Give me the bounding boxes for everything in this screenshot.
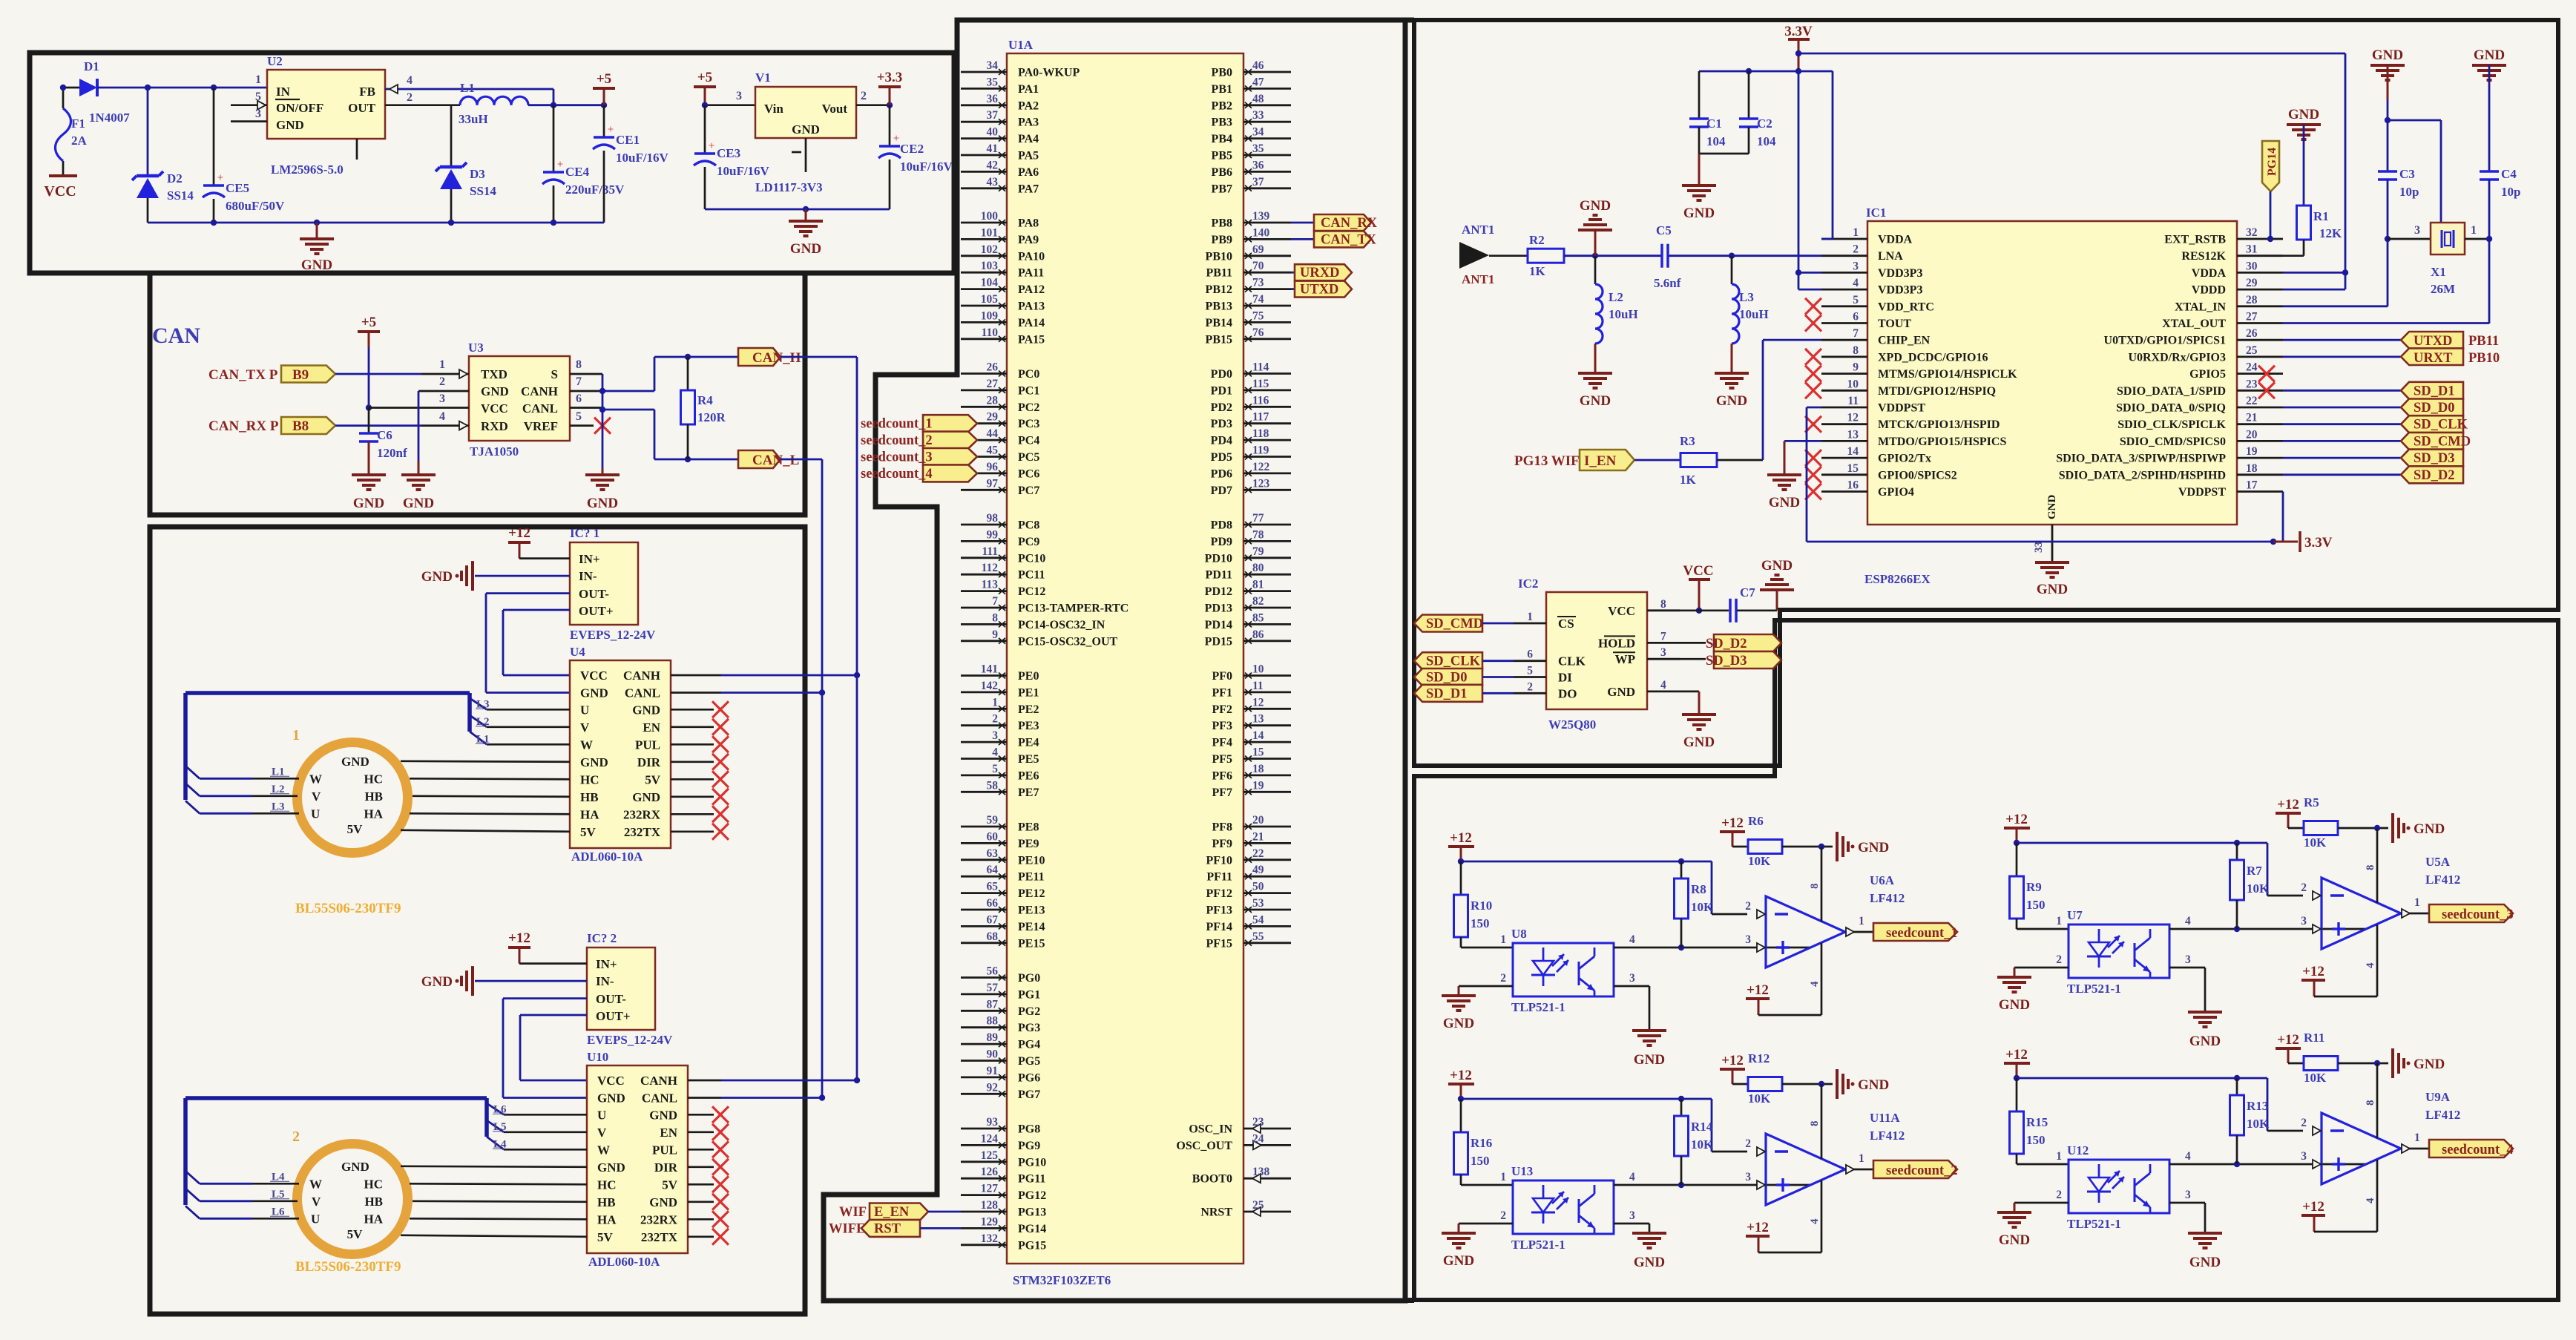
resistor R3 1K [1680, 453, 1717, 467]
wire gnd to IC?2 IN- [475, 980, 587, 982]
U1A pin 35 PA1 [961, 88, 1007, 90]
svg-text:PA3: PA3 [1018, 116, 1039, 129]
svg-text:115: 115 [1252, 378, 1269, 390]
svg-text:118: 118 [1252, 427, 1269, 440]
svg-text:6: 6 [1853, 311, 1859, 323]
U6A pin 4 supply [1758, 1014, 1821, 1017]
resistor R14 10K [1680, 1099, 1683, 1116]
svg-text:GND: GND [2414, 821, 2445, 837]
svg-text:SDIO_CLK/SPICLK: SDIO_CLK/SPICLK [2117, 418, 2226, 431]
svg-text:PA5: PA5 [1018, 150, 1039, 162]
svg-text:V: V [580, 720, 590, 735]
svg-text:GND: GND [1761, 558, 1793, 574]
svg-text:PC11: PC11 [1018, 569, 1045, 582]
wire +12 rail (U7) [2014, 840, 2020, 846]
svg-text:RST: RST [874, 1221, 901, 1236]
ground (U12 pin3) [2169, 1202, 2205, 1204]
IC1 pin 13 MTDO/GPIO15/HSPICS [1821, 440, 1867, 442]
svg-text:26: 26 [2246, 327, 2258, 340]
svg-text:CE1: CE1 [616, 133, 640, 147]
svg-text:PB11: PB11 [1206, 267, 1232, 280]
U1A pin 53 PF13 [1243, 909, 1291, 911]
svg-text:69: 69 [1252, 243, 1264, 256]
svg-text:88: 88 [987, 1015, 999, 1028]
IC1 pin 22 SDIO_DATA_0/SPIQ [2237, 407, 2283, 409]
wire tag to R3 [1634, 459, 1680, 462]
U1A pin 2 PE3 [961, 724, 1007, 726]
wire XTAL_IN [2283, 305, 2388, 307]
svg-text:PUL: PUL [652, 1143, 677, 1157]
svg-text:LF412: LF412 [1870, 1129, 1905, 1143]
U1A pin 138 BOOT0 [1243, 1178, 1291, 1180]
U1A pin 78 PD9 [1243, 540, 1291, 542]
svg-text:PB10: PB10 [1206, 250, 1232, 263]
svg-text:TLP521-1: TLP521-1 [1511, 1238, 1565, 1252]
svg-text:125: 125 [981, 1149, 999, 1162]
capacitor CE2 10uF/16V [889, 105, 891, 146]
IC1 pin 31 RES12K [2237, 254, 2283, 257]
svg-text:119: 119 [1252, 444, 1269, 457]
svg-text:116: 116 [1252, 394, 1269, 407]
svg-text:VCC: VCC [1608, 604, 1635, 618]
svg-text:HC: HC [364, 772, 384, 786]
svg-text:10uF/16V: 10uF/16V [900, 160, 953, 174]
svg-text:10p: 10p [2501, 185, 2520, 199]
svg-text:23: 23 [2246, 378, 2258, 390]
svg-text:U3: U3 [468, 341, 484, 355]
svg-text:+12: +12 [2302, 1199, 2324, 1215]
wire +12 rail (U8) [1458, 858, 1464, 864]
motor bus wire 1 [185, 691, 470, 695]
svg-text:IN+: IN+ [579, 552, 600, 566]
isolated supply IC?1 EVEPS_12-24V [570, 542, 638, 625]
wire L1 to +5 node [528, 104, 604, 106]
svg-text:SD_D0: SD_D0 [2414, 401, 2455, 416]
svg-text:8: 8 [1809, 884, 1821, 890]
svg-text:33uH: 33uH [459, 112, 488, 126]
svg-text:28: 28 [987, 394, 999, 407]
resistor R13 10K [2236, 1078, 2238, 1095]
svg-text:49: 49 [1252, 864, 1264, 876]
svg-text:1: 1 [2471, 224, 2477, 237]
wire motor 1 GND to U4 [401, 761, 570, 762]
svg-text:PD5: PD5 [1211, 451, 1232, 464]
svg-text:9: 9 [992, 628, 998, 641]
svg-text:PB12: PB12 [1206, 283, 1232, 296]
svg-text:SDIO_CMD/SPICS0: SDIO_CMD/SPICS0 [2120, 436, 2226, 448]
U1A pin 123 PD7 [1243, 489, 1291, 491]
IC1 pin 25 U0RXD/Rx/GPIO3 [2237, 355, 2283, 358]
svg-text:SD_D1: SD_D1 [2414, 384, 2455, 398]
resistor R2 1K [1528, 249, 1564, 263]
svg-text:3: 3 [1629, 972, 1635, 985]
svg-text:CLK: CLK [1558, 654, 1586, 669]
svg-text:PE14: PE14 [1018, 921, 1045, 933]
ground (L3) [1715, 372, 1749, 375]
U9A pin 4 supply [2314, 1231, 2377, 1233]
wire CAN_TX to TXD [335, 373, 421, 375]
svg-text:PD2: PD2 [1211, 401, 1232, 414]
fuse F1 [56, 108, 71, 161]
svg-text:PD9: PD9 [1211, 536, 1232, 548]
svg-text:U0TXD/GPIO1/SPICS1: U0TXD/GPIO1/SPICS1 [2104, 335, 2226, 347]
svg-text:PG1: PG1 [1018, 988, 1040, 1001]
svg-text:GND: GND [301, 257, 332, 273]
svg-text:3: 3 [2185, 953, 2191, 966]
svg-text:I_EN: I_EN [1584, 453, 1617, 469]
svg-text:RES12K: RES12K [2181, 250, 2226, 263]
U1A pin 118 PD4 [1243, 439, 1291, 441]
svg-text:W25Q80: W25Q80 [1548, 717, 1596, 732]
svg-text:ON/OFF: ON/OFF [276, 101, 323, 115]
U1A pin 19 PF7 [1243, 791, 1291, 793]
svg-text:4: 4 [1629, 1171, 1635, 1183]
svg-text:36: 36 [1252, 159, 1264, 171]
svg-text:SS14: SS14 [470, 184, 496, 198]
svg-text:PG15: PG15 [1018, 1239, 1046, 1252]
LDO gnd rail [705, 208, 890, 211]
svg-text:PB11: PB11 [2468, 334, 2499, 349]
wire bus to U4 V (L2) [470, 715, 487, 727]
svg-text:2: 2 [2301, 881, 2307, 894]
svg-text:8: 8 [2365, 865, 2376, 871]
svg-text:PG5: PG5 [1018, 1055, 1040, 1068]
svg-text:96: 96 [987, 461, 999, 473]
IC2 pin 8 VCC [1647, 609, 1680, 611]
tag seedcount_3 [2429, 904, 2513, 922]
U1A pin 11 PF1 [1243, 692, 1291, 694]
U1A pin 46 PB0 [1243, 71, 1291, 73]
svg-text:3: 3 [2414, 224, 2420, 237]
wire IC?2 OUT- to U10 GND [503, 997, 587, 999]
ground (side, R12) [1836, 1069, 1839, 1099]
U1A pin 81 PD12 [1243, 590, 1291, 592]
tag SD_CMD (IC2) [1414, 615, 1482, 632]
U1A pin 127 PG12 [961, 1194, 1007, 1196]
svg-text:+12: +12 [1721, 815, 1744, 831]
svg-text:PA15: PA15 [1018, 333, 1045, 346]
svg-text:PG14: PG14 [1018, 1223, 1046, 1235]
svg-text:15: 15 [1847, 462, 1859, 475]
svg-text:ANT1: ANT1 [1462, 223, 1494, 237]
svg-text:WIFE: WIFE [829, 1221, 865, 1236]
svg-text:CANH: CANH [521, 384, 558, 398]
wire R3 to CHIP_EN [1717, 459, 1763, 462]
svg-text:93: 93 [987, 1116, 999, 1129]
svg-text:53: 53 [1252, 897, 1264, 910]
tag UTXD PB11 [2283, 339, 2409, 341]
svg-text:PC1: PC1 [1018, 384, 1039, 397]
wire bus to U10 W (L4) [487, 1137, 504, 1149]
U1A pin 49 PF11 [1243, 876, 1291, 878]
svg-text:12: 12 [1252, 696, 1264, 709]
svg-text:30: 30 [2246, 260, 2258, 272]
svg-text:10uH: 10uH [1609, 307, 1638, 321]
U1A pin 26 PC0 [961, 372, 1007, 375]
svg-text:5V: 5V [580, 825, 597, 839]
svg-text:232RX: 232RX [623, 807, 661, 821]
svg-text:SS14: SS14 [167, 188, 194, 203]
svg-text:112: 112 [982, 562, 999, 574]
svg-text:4: 4 [1853, 277, 1859, 289]
U1A pin 25 NRST [1243, 1211, 1291, 1213]
ground (IC1 pad) [2035, 561, 2069, 564]
svg-text:PB2: PB2 [1212, 99, 1232, 112]
svg-text:PB7: PB7 [1212, 183, 1232, 195]
svg-text:77: 77 [1252, 512, 1264, 525]
U5A pin 8 supply [2376, 828, 2379, 903]
svg-text:HB: HB [364, 1195, 383, 1209]
wire U4 CANL [671, 692, 721, 694]
svg-text:C2: C2 [1757, 116, 1772, 131]
svg-text:110: 110 [982, 326, 999, 339]
svg-text:2: 2 [439, 375, 445, 388]
svg-text:3.3V: 3.3V [2304, 535, 2333, 551]
U1A pin 112 PC11 [961, 574, 1007, 576]
IC1 pin 24 GPIO5 [2237, 372, 2283, 375]
svg-text:PG13 WIF: PG13 WIF [1514, 453, 1580, 469]
svg-text:V: V [312, 789, 321, 804]
svg-text:GND: GND [341, 1160, 369, 1174]
svg-text:9: 9 [1853, 361, 1859, 374]
wire motor 1 5V to U4 [401, 830, 570, 832]
wire motor 2 HC to U10 [410, 1183, 587, 1184]
svg-text:+12: +12 [1747, 982, 1769, 998]
svg-text:+3.3: +3.3 [877, 70, 903, 85]
U2 pin 2 OUT wire [385, 104, 460, 106]
svg-text:1: 1 [439, 358, 445, 371]
ground (above R2 node) [1594, 230, 1597, 256]
U1A pin 22 PF10 [1243, 858, 1291, 861]
svg-text:+12: +12 [1450, 830, 1472, 846]
ground (U8 pin2) [1459, 985, 1513, 988]
IC1 pin 4 VDD3P3 [1821, 289, 1867, 291]
svg-text:4: 4 [2365, 1198, 2376, 1203]
IC1 pin 16 GPIO4 [1821, 490, 1867, 493]
svg-text:15: 15 [1252, 746, 1264, 759]
svg-text:5V: 5V [597, 1230, 614, 1244]
svg-text:24: 24 [2246, 361, 2258, 374]
svg-text:OSC_OUT: OSC_OUT [1176, 1140, 1232, 1152]
svg-text:1: 1 [1527, 611, 1533, 623]
capacitor C4 10p [2480, 170, 2499, 173]
svg-text:+12: +12 [2277, 1032, 2299, 1048]
svg-text:1: 1 [2056, 915, 2062, 927]
wire CAN_H column [856, 357, 858, 1080]
motor driver section frame [150, 527, 805, 1314]
svg-text:URXD: URXD [1300, 266, 1339, 280]
svg-text:PE15: PE15 [1018, 937, 1045, 950]
svg-text:GND: GND [580, 686, 608, 700]
svg-text:4: 4 [2365, 962, 2376, 968]
svg-text:3: 3 [2301, 915, 2307, 927]
U1A pin 4 PE5 [961, 758, 1007, 760]
svg-text:57: 57 [987, 982, 999, 994]
U1A pin 82 PD13 [1243, 607, 1291, 609]
svg-text:R15: R15 [2026, 1115, 2048, 1129]
svg-text:29: 29 [2246, 277, 2258, 289]
U1A pin 86 PD15 [1243, 640, 1291, 642]
svg-text:8: 8 [1853, 344, 1859, 357]
svg-text:VREF: VREF [524, 419, 558, 433]
U9A pin 3 input [2313, 1160, 2321, 1169]
svg-text:2: 2 [2056, 953, 2062, 966]
svg-text:3: 3 [439, 393, 445, 405]
transceiver U3 TJA1050 [469, 356, 570, 441]
svg-text:3: 3 [1745, 1171, 1751, 1183]
svg-text:V: V [597, 1126, 607, 1140]
svg-text:R5: R5 [2304, 795, 2319, 809]
svg-text:124: 124 [981, 1132, 999, 1145]
U1A pin 117 PD3 [1243, 422, 1291, 424]
svg-text:OUT+: OUT+ [596, 1009, 631, 1023]
svg-text:22: 22 [1252, 847, 1264, 860]
wire bus to U4 U (L3) [470, 698, 487, 709]
IC1 pin 27 XTAL_OUT [2237, 322, 2283, 324]
diode D3 SS14 [450, 105, 453, 167]
svg-text:132: 132 [981, 1232, 999, 1245]
IC1 pin 1 VDDA [1821, 238, 1867, 240]
svg-text:GND: GND [1634, 1255, 1665, 1270]
svg-text:R10: R10 [1471, 899, 1492, 913]
svg-text:PA1: PA1 [1018, 83, 1039, 96]
svg-text:68: 68 [987, 930, 999, 943]
svg-text:SD_D2: SD_D2 [2414, 468, 2455, 483]
ground (C1 C2) [1699, 153, 1749, 155]
tag SD_D1 (IC1) [2283, 390, 2409, 392]
svg-text:PD7: PD7 [1211, 485, 1232, 497]
wire +12 to IC?2 IN+ [519, 962, 587, 965]
svg-text:PG7: PG7 [1018, 1088, 1040, 1101]
svg-text:CAN_RX: CAN_RX [1321, 216, 1378, 231]
svg-text:B8: B8 [292, 418, 309, 434]
svg-text:CANH: CANH [623, 669, 660, 683]
capacitor CE1 10uF/16V [603, 105, 605, 137]
U1A pin 125 PG10 [961, 1160, 1007, 1163]
svg-text:NRST: NRST [1200, 1206, 1232, 1219]
svg-text:seedcount_1: seedcount_1 [1886, 926, 1958, 941]
svg-text:73: 73 [1252, 277, 1264, 289]
svg-text:LM2596S-5.0: LM2596S-5.0 [271, 162, 344, 177]
IC1 pin 18 SDIO_DATA_2/SPIHD/HSPIHD [2237, 473, 2283, 476]
svg-text:10K: 10K [2304, 835, 2327, 850]
svg-text:7: 7 [576, 375, 582, 388]
svg-text:R6: R6 [1748, 814, 1764, 828]
wire R2 to C5 [1564, 254, 1662, 257]
svg-text:CAN_L: CAN_L [752, 453, 799, 468]
U1A pin 55 PF15 [1243, 942, 1291, 944]
svg-text:E_EN: E_EN [874, 1205, 910, 1220]
svg-text:PE0: PE0 [1018, 670, 1039, 683]
wire 3.3V to VDD3P3 [1795, 68, 1801, 74]
svg-text:C3: C3 [2399, 167, 2415, 181]
svg-text:44: 44 [987, 427, 999, 440]
U1A pin 119 PD5 [1243, 456, 1291, 458]
wire motor 1 HA to U4 [410, 813, 570, 814]
svg-text:PA14: PA14 [1018, 317, 1045, 329]
ground (U7 pin3) [2169, 967, 2205, 969]
svg-text:U9A: U9A [2425, 1090, 2451, 1104]
svg-text:R11: R11 [2304, 1031, 2324, 1045]
ground (U12 pin2) [2014, 1202, 2069, 1204]
svg-text:26M: 26M [2431, 282, 2455, 296]
svg-text:GND: GND [353, 496, 384, 511]
svg-text:ESP8266EX: ESP8266EX [1864, 572, 1931, 586]
U1A pin 91 PG6 [961, 1077, 1007, 1079]
svg-text:HA: HA [597, 1212, 617, 1226]
power +5 (CAN) [358, 330, 380, 333]
resistor R6 10K [1732, 846, 1748, 848]
svg-text:104: 104 [1757, 134, 1776, 148]
wire R5 to gnd node [2338, 827, 2388, 830]
svg-text:+12: +12 [2277, 797, 2299, 812]
U9A pin 8 supply [2376, 1063, 2379, 1138]
svg-text:3: 3 [1745, 933, 1751, 946]
svg-text:29: 29 [987, 411, 999, 424]
svg-text:117: 117 [1252, 411, 1269, 424]
svg-text:109: 109 [981, 309, 999, 322]
wire bus to U4 W (L1) [470, 732, 487, 744]
svg-text:5: 5 [1527, 665, 1533, 677]
svg-text:PF12: PF12 [1206, 887, 1232, 900]
svg-text:seedcount_4: seedcount_4 [2442, 1143, 2514, 1157]
svg-text:SD_D1: SD_D1 [1426, 686, 1468, 701]
svg-text:HB: HB [580, 790, 599, 804]
svg-text:PA13: PA13 [1018, 300, 1045, 313]
U1A pin 129 PG14 [961, 1227, 1007, 1229]
svg-text:1: 1 [1859, 1152, 1864, 1165]
U1A pin 10 PF0 [1243, 674, 1291, 677]
IC1 pin 3 VDD3P3 [1821, 272, 1867, 274]
svg-text:PE4: PE4 [1018, 737, 1039, 749]
svg-text:PA11: PA11 [1018, 267, 1044, 280]
svg-text:87: 87 [987, 998, 999, 1011]
svg-text:GND: GND [1858, 840, 1889, 855]
svg-text:L1: L1 [460, 81, 475, 95]
IC1 pin 12 MTCK/GPIO13/HSPID [1821, 423, 1867, 425]
svg-text:GND: GND [790, 241, 821, 257]
svg-text:PC9: PC9 [1018, 536, 1039, 548]
U1A pin 54 PF14 [1243, 925, 1291, 927]
U1A pin 40 PA4 [961, 137, 1007, 139]
U1A pin 77 PD8 [1243, 524, 1291, 526]
svg-text:150: 150 [1471, 916, 1490, 930]
svg-text:VCC: VCC [481, 401, 508, 416]
svg-text:CAN_TX P: CAN_TX P [208, 367, 278, 383]
svg-text:PG0: PG0 [1018, 972, 1040, 985]
svg-text:PF14: PF14 [1206, 921, 1232, 933]
svg-text:100: 100 [981, 210, 999, 223]
WiFi IC1 ESP8266EX [1867, 221, 2237, 525]
svg-text:8: 8 [576, 358, 582, 371]
U1A pin 29 PC3 [961, 422, 1007, 424]
U3 pin 6 stub [570, 407, 602, 409]
svg-text:47: 47 [1252, 76, 1264, 88]
motor driver U4 ADL060-10A [570, 660, 671, 848]
IC1 pin 21 SDIO_CLK/SPICLK [2237, 423, 2283, 425]
ground (LDO) [789, 220, 823, 223]
svg-text:PE3: PE3 [1018, 720, 1039, 732]
svg-text:66: 66 [987, 897, 999, 910]
svg-text:5: 5 [576, 410, 582, 423]
wire U13 pin4 to opamp + [1614, 1184, 1810, 1186]
svg-text:CAN: CAN [152, 323, 200, 348]
tag SD_D2 (IC2) [1680, 642, 1706, 644]
U1A pin 75 PB14 [1243, 321, 1291, 323]
resistor R12 10K [1732, 1083, 1748, 1086]
svg-text:11: 11 [1252, 680, 1264, 692]
svg-text:HB: HB [597, 1195, 616, 1209]
